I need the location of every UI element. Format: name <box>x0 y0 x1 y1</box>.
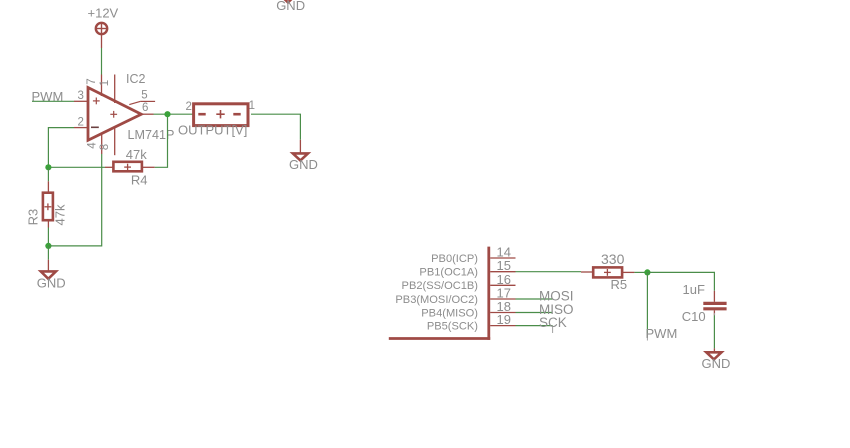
wire R4 to output node <box>155 114 168 167</box>
pin 7 lead <box>101 75 103 97</box>
svg-text:PB1(OC1A): PB1(OC1A) <box>419 267 478 279</box>
wire R5 to junction D <box>634 271 647 273</box>
svg-text:PB4(MISO): PB4(MISO) <box>421 307 478 319</box>
wire pin2 net <box>48 128 74 168</box>
svg-text:8: 8 <box>99 144 111 150</box>
wire junction D down (net PWM) <box>646 272 648 337</box>
pin 2 lead <box>74 127 88 129</box>
op-amp IC2 triangle <box>88 88 141 141</box>
svg-text:6: 6 <box>142 102 148 114</box>
svg-text:R4: R4 <box>131 172 148 187</box>
svg-text:SCK: SCK <box>539 315 567 330</box>
svg-text:PB5(SCK): PB5(SCK) <box>427 320 478 332</box>
svg-text:GND: GND <box>702 356 731 371</box>
wire opamp output <box>154 113 194 115</box>
wire junction to R4 <box>48 166 105 168</box>
svg-text:7: 7 <box>86 78 98 84</box>
svg-text:GND: GND <box>289 157 318 172</box>
pin 5 lead <box>129 101 155 104</box>
pin 14 lead <box>490 257 515 259</box>
svg-text:R5: R5 <box>611 277 628 292</box>
svg-text:PB0(ICP): PB0(ICP) <box>431 253 478 265</box>
svg-text:2: 2 <box>78 116 84 128</box>
pin 4 lead <box>101 134 103 155</box>
svg-text:PWM: PWM <box>646 326 678 341</box>
svg-text:IC2: IC2 <box>126 72 146 86</box>
svg-text:GND: GND <box>276 0 305 13</box>
wire R3 bottom <box>47 228 49 246</box>
wire C10 to ground <box>713 315 715 348</box>
svg-text:330: 330 <box>601 251 625 267</box>
wire connector pin1 to ground <box>251 114 300 140</box>
svg-text:OUTPUT[V]: OUTPUT[V] <box>178 123 247 138</box>
svg-text:C10: C10 <box>682 309 706 324</box>
IC body edge (microcontroller) <box>389 247 490 340</box>
junction D <box>644 269 650 275</box>
svg-text:47k: 47k <box>53 204 68 225</box>
ground top (clipped) <box>281 0 295 2</box>
svg-text:PB2(SS/OC1B): PB2(SS/OC1B) <box>402 280 478 292</box>
junction A <box>45 164 51 170</box>
wire junction D to C10 <box>647 272 714 290</box>
net SCK anchor tick <box>552 326 554 333</box>
svg-text:1: 1 <box>99 80 111 86</box>
ground under connector <box>293 140 308 161</box>
svg-text:4: 4 <box>87 142 99 149</box>
wire +12V to pin7 <box>101 48 103 75</box>
ground under R3 <box>41 260 56 279</box>
junction B (output node) <box>164 111 170 117</box>
svg-text:5: 5 <box>141 90 147 102</box>
svg-text:47k: 47k <box>126 147 147 162</box>
resistor R5 <box>581 267 634 277</box>
wire pin15 to R5 <box>516 271 582 273</box>
wire PWM to pin3 <box>32 100 74 102</box>
wire pin18 (net MISO) <box>516 312 553 314</box>
resistor R4 <box>105 162 155 172</box>
svg-text:1: 1 <box>249 100 255 112</box>
svg-text:R3: R3 <box>25 209 40 226</box>
wire pin17 (net MOSI) <box>516 298 553 300</box>
junction C <box>45 243 51 249</box>
svg-text:3: 3 <box>78 90 84 102</box>
svg-text:2: 2 <box>186 101 192 113</box>
wire junction C to ground <box>47 246 49 260</box>
pin 18 lead <box>490 312 515 314</box>
pin 1 lead <box>114 75 116 104</box>
svg-text:+12V: +12V <box>88 6 119 21</box>
ground under C10 <box>706 348 721 359</box>
connector OUTPUT[V] <box>194 104 248 126</box>
svg-text:19: 19 <box>497 312 511 327</box>
wire pin19 (net SCK) <box>516 325 553 327</box>
pin 17 lead <box>490 298 515 300</box>
supply symbol +12V <box>96 23 107 48</box>
resistor R3 <box>43 181 53 227</box>
pin 19 lead <box>490 325 515 327</box>
capacitor C10 <box>703 291 726 320</box>
pin 3 lead <box>74 100 88 102</box>
net PWM anchor tick <box>646 333 648 341</box>
wire junction C to pin4 <box>48 154 101 246</box>
svg-text:GND: GND <box>37 276 66 291</box>
svg-text:PB3(MOSI/OC2): PB3(MOSI/OC2) <box>395 294 478 306</box>
svg-text:1uF: 1uF <box>683 282 705 297</box>
pin 15 lead <box>490 271 515 273</box>
pin 6 lead <box>141 113 153 115</box>
pin 16 lead <box>490 284 515 286</box>
wire R3 top <box>47 167 49 181</box>
pin 8 lead <box>114 127 116 156</box>
